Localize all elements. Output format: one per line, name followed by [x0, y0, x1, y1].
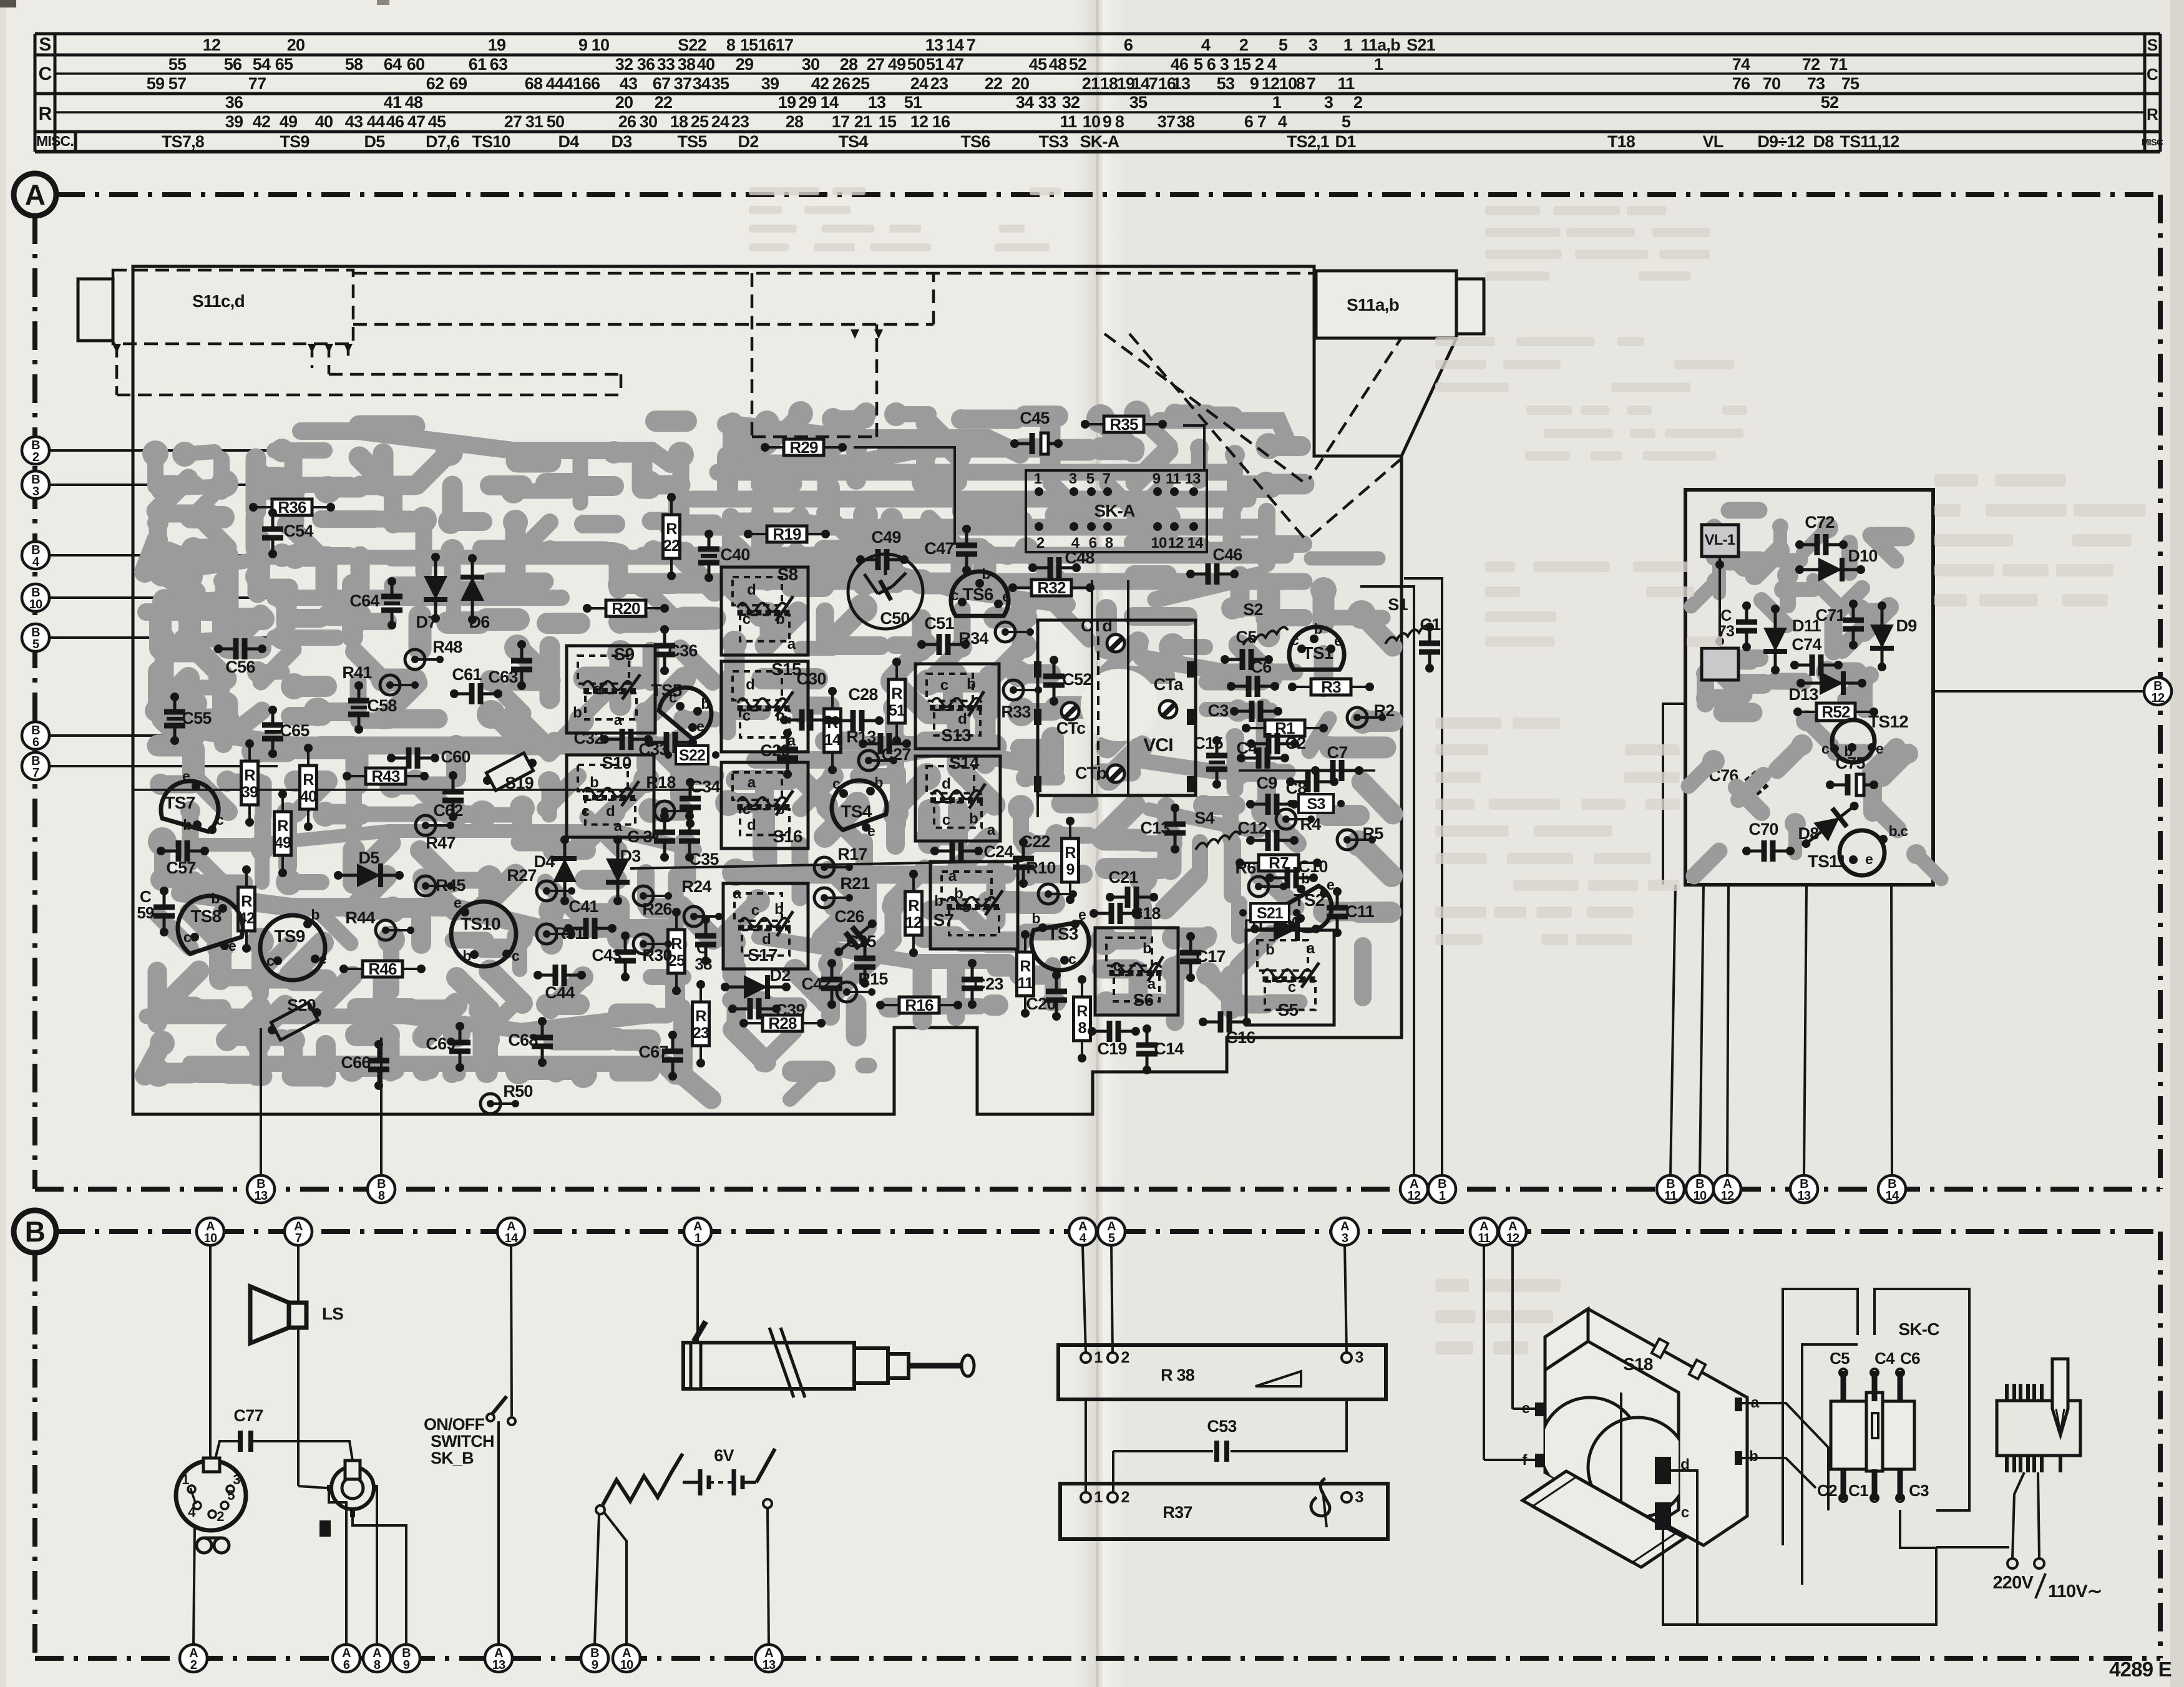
svg-text:a: a — [1307, 940, 1315, 957]
capacitor C3 — [1898, 1469, 1903, 1500]
svg-text:C40: C40 — [720, 545, 749, 564]
svg-text:6: 6 — [1124, 36, 1133, 54]
svg-text:C1: C1 — [1848, 1481, 1868, 1500]
node B13 (A-row) — [247, 1175, 275, 1203]
svg-text:c: c — [951, 587, 959, 603]
svg-text:12: 12 — [1262, 74, 1279, 93]
svg-text:e: e — [1522, 1400, 1530, 1417]
svg-text:R: R — [891, 685, 902, 703]
svg-text:c: c — [1821, 741, 1830, 757]
svg-text:56: 56 — [224, 55, 242, 74]
svg-text:d: d — [958, 711, 967, 727]
capacitor C72 — [1795, 513, 1848, 555]
svg-text:13: 13 — [1172, 74, 1191, 93]
svg-text:61: 61 — [469, 55, 487, 74]
node A13 (B bottom row) — [485, 1645, 512, 1672]
svg-text:2: 2 — [1121, 1349, 1129, 1366]
svg-text:MISC: MISC — [2142, 137, 2163, 148]
svg-text:73: 73 — [1807, 74, 1825, 93]
connector SK-A — [1026, 470, 1207, 552]
svg-text:TS5: TS5 — [677, 132, 707, 151]
svg-text:a: a — [787, 636, 796, 653]
wire C7 net — [1239, 769, 1375, 772]
capacitor C26 — [829, 913, 882, 963]
svg-text:1: 1 — [1094, 1349, 1103, 1366]
svg-text:51: 51 — [904, 93, 922, 112]
PCB outline — [133, 266, 1402, 1114]
svg-text:C56: C56 — [225, 658, 255, 676]
node B4 — [36, 554, 279, 557]
svg-text:TS7: TS7 — [165, 793, 195, 812]
earphone jack — [319, 1520, 331, 1537]
svg-text:16: 16 — [758, 36, 776, 54]
svg-text:R6: R6 — [1236, 858, 1257, 877]
svg-text:1: 1 — [1374, 55, 1383, 74]
transistor TS4 — [824, 773, 890, 839]
wire DIN to A2 — [193, 1527, 195, 1645]
svg-text:TS9: TS9 — [280, 132, 310, 151]
coil S6 — [1095, 928, 1178, 1015]
pin 1 SK-A — [1035, 487, 1043, 496]
capacitor C3 — [1208, 701, 1282, 722]
svg-text:13: 13 — [255, 1189, 268, 1203]
trimmer capacitor C50 — [848, 554, 923, 629]
svg-text:67: 67 — [653, 74, 670, 93]
parts-location table — [35, 34, 2160, 152]
svg-text:C72: C72 — [1805, 513, 1834, 532]
svg-text:C67: C67 — [638, 1043, 668, 1061]
trimmer CTc — [1061, 703, 1079, 720]
svg-text:37: 37 — [1158, 112, 1175, 131]
coil S13 — [915, 664, 999, 749]
svg-text:D1: D1 — [1335, 132, 1357, 151]
capacitor C59 — [154, 887, 175, 936]
svg-text:5: 5 — [1086, 470, 1094, 487]
svg-text:11a,b: 11a,b — [1360, 36, 1400, 54]
svg-text:e: e — [1334, 633, 1342, 649]
svg-text:40: 40 — [300, 788, 316, 805]
capacitor C35 — [679, 812, 719, 868]
svg-text:14: 14 — [1886, 1189, 1899, 1203]
svg-text:R29: R29 — [789, 438, 818, 457]
switch S20 — [271, 1003, 318, 1040]
resistor R4 — [1276, 809, 1321, 834]
svg-text:39: 39 — [225, 112, 243, 131]
transistor TS8 — [169, 887, 246, 955]
svg-text:10: 10 — [1083, 112, 1100, 131]
svg-text:55: 55 — [168, 55, 187, 74]
capacitor C42 — [801, 959, 842, 1009]
svg-text:52: 52 — [1069, 55, 1086, 74]
svg-text:TS6: TS6 — [963, 585, 993, 604]
resistor R19 — [744, 525, 830, 543]
svg-text:b: b — [211, 890, 220, 907]
svg-text:C63: C63 — [488, 668, 518, 686]
svg-text:D6: D6 — [469, 613, 490, 631]
svg-text:C2: C2 — [1817, 1481, 1837, 1500]
svg-text:220V: 220V — [1992, 1573, 2034, 1593]
capacitor C10 — [1265, 857, 1328, 888]
svg-text:S5: S5 — [1278, 1000, 1299, 1019]
svg-text:S14: S14 — [949, 753, 980, 772]
wire B13 tail — [260, 1028, 262, 1175]
node B3 — [36, 484, 279, 486]
coil S7 — [930, 862, 1018, 949]
wire pot to A6/A8/B9 — [329, 1488, 346, 1645]
svg-text:3: 3 — [1069, 470, 1077, 487]
svg-text:D9÷12: D9÷12 — [1757, 132, 1804, 151]
svg-text:49: 49 — [888, 55, 906, 74]
svg-text:1: 1 — [1034, 470, 1042, 487]
svg-text:b: b — [183, 817, 192, 833]
svg-text:C18: C18 — [1131, 904, 1161, 923]
svg-text:R32: R32 — [1037, 578, 1066, 597]
svg-text:C39: C39 — [775, 1001, 805, 1019]
capacitor C43 — [592, 931, 636, 981]
svg-text:20: 20 — [287, 36, 305, 54]
resistor R1 — [1242, 719, 1328, 737]
wire SK-A to right edge — [1183, 425, 1204, 471]
node A8 (B bottom row) — [363, 1645, 391, 1672]
svg-text:2: 2 — [1239, 36, 1248, 54]
switch S11a,b — [1316, 271, 1456, 338]
svg-text:47: 47 — [946, 55, 963, 74]
svg-text:14: 14 — [1132, 74, 1150, 93]
svg-text:2: 2 — [217, 1509, 224, 1524]
svg-text:68: 68 — [525, 74, 543, 93]
svg-text:C65: C65 — [280, 721, 310, 740]
svg-text:R: R — [2147, 105, 2158, 124]
resistor R25 — [668, 908, 685, 995]
svg-text:1: 1 — [1272, 93, 1282, 112]
svg-text:D7: D7 — [416, 613, 437, 631]
svg-text:b: b — [1301, 870, 1310, 887]
svg-text:R43: R43 — [371, 767, 400, 785]
svg-text:7: 7 — [1103, 470, 1111, 487]
node A14 (B-row) — [497, 1218, 525, 1245]
svg-text:11: 11 — [1018, 975, 1034, 992]
svg-text:1: 1 — [1343, 36, 1353, 54]
diode D1 — [1250, 917, 1320, 941]
svg-text:R17: R17 — [837, 845, 867, 863]
resistor R52 — [1793, 703, 1878, 721]
svg-text:D5: D5 — [359, 848, 380, 867]
svg-text:40: 40 — [315, 112, 333, 131]
mini PCB outline — [1685, 490, 1933, 885]
resistor R33 — [1001, 680, 1042, 721]
diode D3 — [606, 835, 630, 905]
DIN socket — [209, 1245, 212, 1462]
svg-text:C51: C51 — [924, 614, 954, 633]
svg-text:c: c — [942, 812, 950, 829]
capacitor C2 — [1247, 733, 1305, 754]
svg-text:R45: R45 — [436, 876, 466, 895]
svg-text:2: 2 — [1121, 1489, 1129, 1506]
svg-text:R50: R50 — [503, 1082, 532, 1101]
capacitor C5 — [1841, 1371, 1846, 1401]
coil S2 — [1243, 627, 1288, 645]
svg-text:R41: R41 — [342, 663, 372, 682]
svg-text:b: b — [1265, 941, 1274, 958]
resistor R42 — [238, 865, 255, 953]
capacitor C44 — [534, 965, 586, 1002]
transistor TS3 — [1029, 907, 1093, 975]
tape-recorder symbol — [197, 1538, 212, 1553]
svg-text:R21: R21 — [840, 874, 870, 893]
diode D10 — [1795, 558, 1865, 581]
svg-text:C7: C7 — [1327, 743, 1348, 762]
svg-text:a: a — [787, 732, 796, 749]
svg-text:72: 72 — [1802, 55, 1820, 74]
svg-text:R2: R2 — [1374, 701, 1395, 720]
svg-text:49: 49 — [275, 834, 291, 852]
resistor R22 — [663, 493, 680, 580]
node B11 (A-row) — [1657, 1175, 1684, 1203]
svg-text:2: 2 — [1255, 55, 1264, 74]
svg-text:S4: S4 — [1194, 809, 1214, 827]
svg-text:SK-C: SK-C — [1898, 1320, 1939, 1339]
svg-text:30: 30 — [640, 112, 657, 131]
svg-text:R: R — [244, 767, 255, 784]
svg-text:SK-A: SK-A — [1094, 501, 1135, 520]
svg-text:10: 10 — [29, 598, 42, 611]
transistor TS2 — [1281, 870, 1340, 940]
svg-text:c: c — [183, 929, 192, 945]
svg-text:9: 9 — [578, 36, 588, 54]
switch S22 — [676, 746, 708, 764]
node B14 (A-row) — [1878, 1175, 1906, 1203]
svg-text:TS11,12: TS11,12 — [1840, 132, 1899, 151]
svg-text:11: 11 — [1664, 1189, 1677, 1203]
capacitor C65 — [262, 706, 310, 758]
wire left bus — [134, 789, 704, 791]
svg-text:34: 34 — [1016, 93, 1034, 112]
svg-text:b: b — [776, 707, 784, 724]
capacitor C1 — [1872, 1469, 1878, 1500]
svg-text:S19: S19 — [505, 774, 534, 792]
svg-text:S17: S17 — [748, 945, 778, 965]
capacitor C7 — [1311, 743, 1363, 781]
svg-text:50: 50 — [547, 112, 564, 131]
svg-text:C19: C19 — [1097, 1039, 1127, 1058]
svg-text:CTb: CTb — [1075, 764, 1106, 782]
capacitor C46 — [1186, 545, 1242, 585]
svg-text:D5: D5 — [364, 132, 386, 151]
svg-text:R47: R47 — [426, 834, 455, 852]
resistor R10 — [1026, 858, 1077, 904]
svg-text:C22: C22 — [1020, 832, 1050, 851]
capacitor C48 — [1028, 548, 1094, 578]
svg-text:74: 74 — [1732, 55, 1750, 74]
svg-text:C46: C46 — [1212, 545, 1242, 564]
svg-text:C53: C53 — [1207, 1417, 1237, 1436]
resistor R18 — [646, 773, 693, 821]
svg-text:49: 49 — [280, 112, 298, 131]
telescopic antenna — [696, 1245, 699, 1343]
svg-text:S21: S21 — [1257, 905, 1284, 922]
svg-text:C16: C16 — [1226, 1028, 1255, 1047]
svg-text:C: C — [1720, 607, 1732, 625]
svg-text:C4: C4 — [1237, 739, 1258, 757]
resistor R24 — [681, 877, 723, 926]
svg-text:54: 54 — [253, 55, 271, 74]
svg-text:24: 24 — [910, 74, 929, 93]
slider control R37 (tone) — [1060, 1484, 1388, 1539]
svg-text:R30: R30 — [642, 946, 671, 965]
svg-text:R20: R20 — [612, 599, 640, 618]
svg-text:13: 13 — [763, 1658, 776, 1672]
svg-text:44: 44 — [367, 112, 385, 131]
svg-text:25: 25 — [852, 74, 870, 93]
svg-text:CTc: CTc — [1056, 719, 1086, 737]
svg-text:47: 47 — [407, 112, 425, 131]
transistor TS6 — [951, 566, 1010, 616]
svg-text:D4: D4 — [534, 852, 555, 871]
capacitor C9 — [1246, 774, 1299, 815]
resistor R21 — [814, 874, 870, 908]
svg-text:C57: C57 — [166, 858, 195, 877]
svg-text:23: 23 — [693, 1024, 709, 1042]
potentiometer (volume) — [331, 1467, 374, 1509]
svg-text:39: 39 — [761, 74, 779, 93]
svg-text:7: 7 — [1307, 74, 1315, 93]
svg-text:C12: C12 — [1237, 819, 1267, 837]
svg-text:35: 35 — [711, 74, 729, 93]
svg-text:43: 43 — [345, 112, 363, 131]
diode D6 — [461, 554, 484, 624]
svg-text:3: 3 — [233, 1472, 240, 1487]
capacitor C58 — [348, 681, 397, 734]
diode D13 — [1796, 671, 1866, 695]
svg-text:15: 15 — [740, 36, 758, 54]
resistor R13 — [846, 727, 897, 771]
pin 6 SK-A — [1087, 522, 1096, 531]
svg-text:D8: D8 — [1798, 824, 1820, 843]
svg-text:26: 26 — [832, 74, 851, 93]
svg-text:D3: D3 — [612, 132, 633, 151]
svg-text:3: 3 — [1355, 1489, 1363, 1506]
svg-text:19: 19 — [778, 93, 796, 112]
svg-text:1: 1 — [1439, 1189, 1446, 1203]
svg-text:21: 21 — [1082, 74, 1100, 93]
svg-text:10: 10 — [204, 1232, 217, 1245]
svg-text:C4: C4 — [1874, 1349, 1895, 1368]
capacitor C33 — [638, 732, 697, 759]
capacitor C12 — [1237, 819, 1299, 851]
svg-text:SK_B: SK_B — [431, 1449, 474, 1467]
svg-text:C60: C60 — [441, 747, 470, 766]
svg-text:S20: S20 — [287, 996, 316, 1014]
capacitor C76 — [1730, 758, 1783, 808]
coil S10 — [567, 753, 654, 837]
svg-text:VL-1: VL-1 — [1705, 532, 1735, 548]
wire D3 long — [630, 861, 1023, 868]
svg-text:D8: D8 — [1813, 132, 1835, 151]
svg-text:C64: C64 — [349, 591, 379, 610]
capacitor C27 — [859, 733, 911, 764]
capacitor C6 — [1227, 658, 1279, 697]
svg-text:22: 22 — [655, 93, 672, 112]
resistor R8 — [1074, 975, 1091, 1062]
svg-text:21: 21 — [854, 112, 872, 131]
pin 5 SK-A — [1087, 487, 1096, 496]
svg-text:R: R — [241, 893, 252, 910]
node B6 — [36, 734, 278, 737]
resistor R6 — [1236, 858, 1287, 897]
svg-text:20: 20 — [1012, 74, 1029, 93]
switch S3 — [1299, 794, 1333, 813]
svg-text:a: a — [733, 885, 742, 902]
node B10 (A-row) — [1686, 1175, 1714, 1203]
svg-text:32: 32 — [615, 55, 633, 74]
svg-text:59: 59 — [137, 903, 154, 922]
node B9 (B bottom row) — [392, 1645, 420, 1672]
resistor R28 — [739, 1014, 826, 1033]
svg-text:R5: R5 — [1363, 824, 1384, 843]
capacitor C56 — [214, 638, 266, 676]
svg-text:VL: VL — [1703, 132, 1723, 151]
svg-text:7: 7 — [967, 36, 975, 54]
svg-text:6: 6 — [1207, 55, 1216, 74]
svg-text:S8: S8 — [778, 565, 798, 584]
svg-text:S11a,b: S11a,b — [1347, 295, 1399, 314]
svg-text:15: 15 — [1233, 55, 1251, 74]
svg-text:S: S — [39, 34, 51, 55]
svg-text:C77: C77 — [233, 1406, 263, 1425]
svg-text:37: 37 — [674, 74, 691, 93]
coil S5 — [1246, 930, 1334, 1025]
svg-text:14: 14 — [821, 93, 839, 112]
svg-text:S10: S10 — [602, 753, 631, 772]
svg-text:R35: R35 — [1109, 415, 1138, 434]
svg-text:6: 6 — [343, 1658, 350, 1672]
svg-text:38: 38 — [1177, 112, 1195, 131]
svg-text:4: 4 — [1278, 112, 1287, 131]
resistor R2 — [1347, 701, 1394, 727]
svg-text:SWITCH: SWITCH — [431, 1432, 494, 1451]
transistor TS7 — [158, 768, 225, 834]
svg-text:c: c — [1068, 951, 1076, 967]
resistor R15 — [837, 970, 888, 1002]
svg-text:C28: C28 — [848, 685, 878, 704]
capacitor C64 — [349, 577, 402, 630]
svg-text:32: 32 — [1062, 93, 1080, 112]
svg-text:9: 9 — [1153, 470, 1161, 487]
svg-text:15: 15 — [879, 112, 897, 131]
pin 2 SK-A — [1035, 522, 1043, 531]
svg-text:12: 12 — [1506, 1232, 1519, 1245]
pin 9 SK-A — [1153, 487, 1162, 496]
capacitor C20 — [1026, 971, 1067, 1021]
svg-text:7: 7 — [1149, 74, 1158, 93]
capacitor C1 — [1419, 615, 1441, 673]
svg-text:C26: C26 — [834, 907, 864, 926]
svg-text:48: 48 — [405, 93, 423, 112]
svg-text:6: 6 — [32, 736, 39, 749]
svg-text:9: 9 — [1250, 74, 1259, 93]
capacitor C22 — [1013, 832, 1050, 888]
svg-text:B: B — [25, 1215, 45, 1248]
svg-text:e: e — [182, 768, 190, 784]
capacitor C55 — [164, 693, 212, 745]
node A12 (A-row) — [1400, 1175, 1428, 1203]
section B frame — [35, 1232, 2160, 1658]
wire R29 net — [854, 447, 955, 545]
svg-text:TS12: TS12 — [1868, 712, 1908, 731]
svg-text:R24: R24 — [681, 877, 711, 896]
resistor R29 — [761, 438, 847, 457]
wire B8 tail — [380, 1038, 383, 1175]
